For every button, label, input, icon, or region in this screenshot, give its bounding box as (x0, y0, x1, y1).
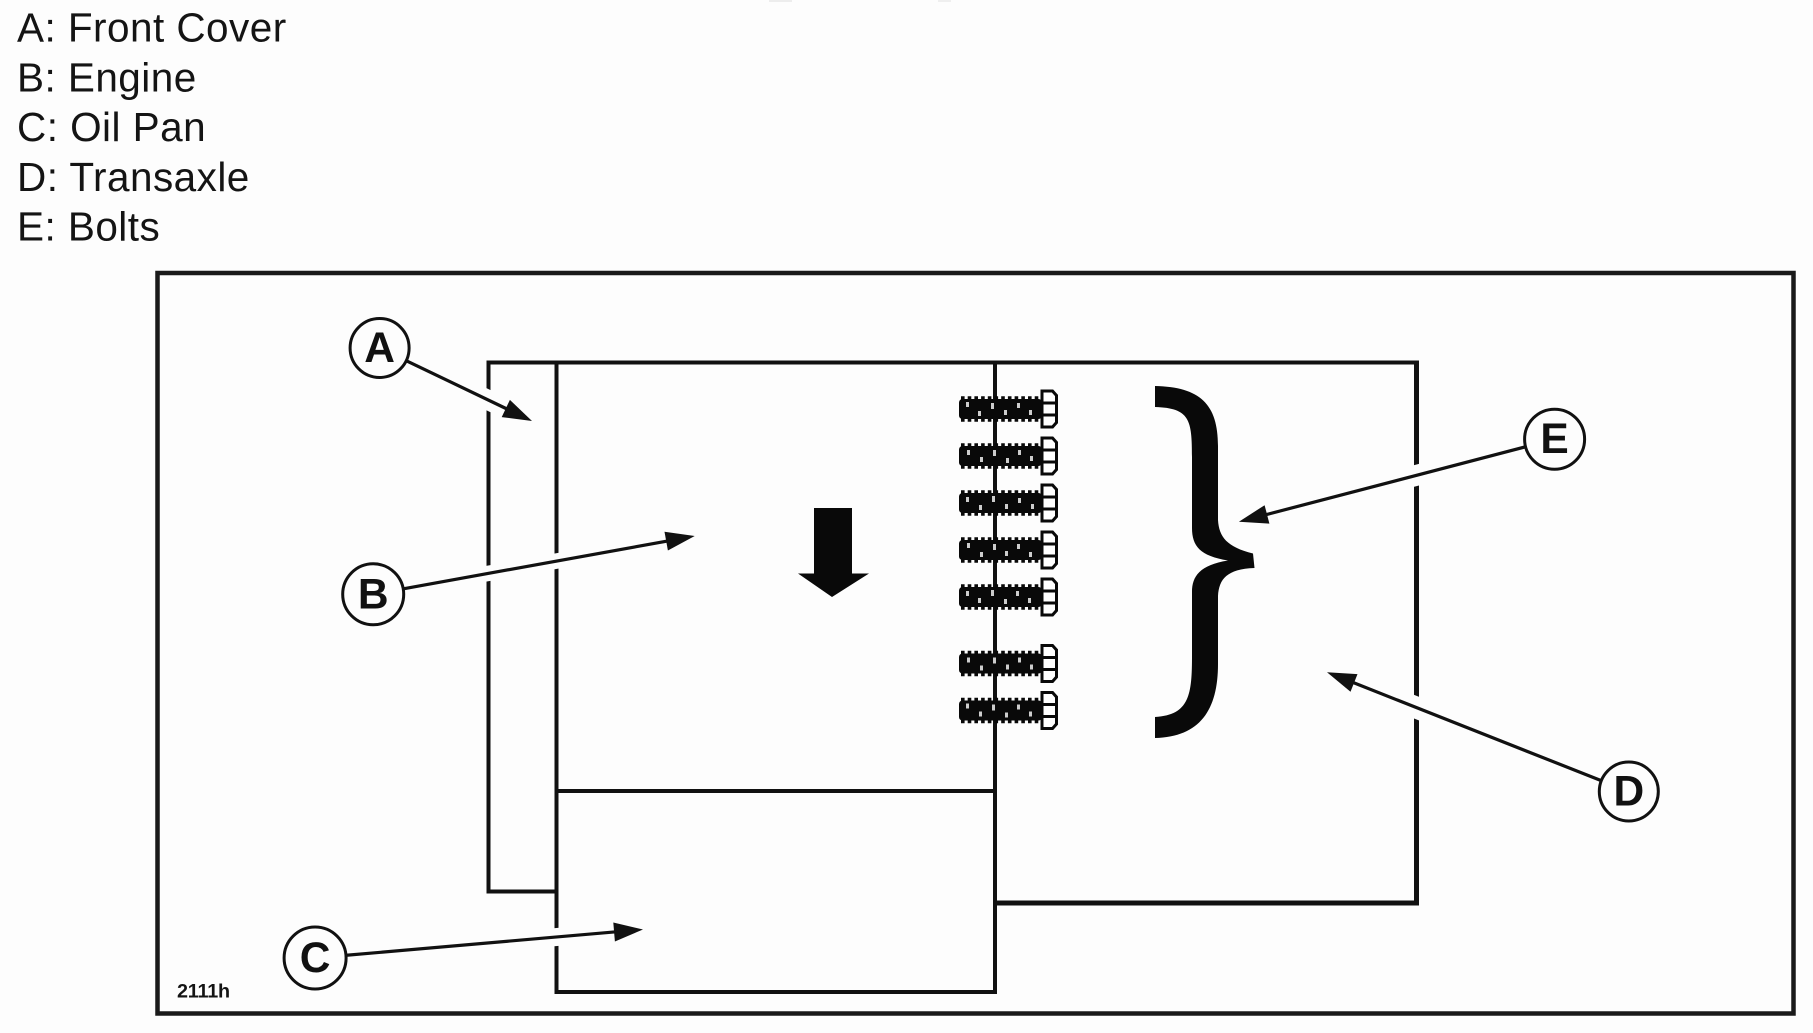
transaxle bottom edge (995, 901, 1419, 906)
curly brace E group (1155, 386, 1255, 738)
svg-text:A: Front Cover: A: Front Cover (17, 5, 287, 51)
top edge line of assembly (489, 361, 1417, 365)
leader line C (345, 932, 616, 956)
bolt 6 (959, 646, 1057, 682)
svg-text:D: Transaxle: D: Transaxle (17, 154, 250, 200)
svg-text:E: Bolts: E: Bolts (17, 204, 160, 250)
bolt 1 (959, 391, 1057, 427)
arrowhead A (502, 400, 532, 421)
leader line B (403, 541, 668, 589)
leader line E (1266, 447, 1526, 515)
bolt 2 (959, 438, 1057, 474)
leader halo D (1354, 683, 1601, 781)
callout circle D (1599, 762, 1658, 821)
arrowhead B (665, 532, 695, 551)
bolt 5 (959, 579, 1057, 615)
engine right / oil pan right edge (993, 363, 997, 993)
svg-text:A: A (364, 325, 395, 372)
callout circle E (1525, 409, 1585, 469)
svg-text:C: C (300, 935, 331, 982)
transaxle right edge (1414, 361, 1419, 904)
bolt 4 (959, 532, 1057, 568)
svg-text:2111h: 2111h (177, 981, 230, 1003)
oil pan bottom edge (555, 990, 998, 994)
bolt 3 (959, 485, 1057, 521)
svg-text:D: D (1613, 769, 1644, 816)
engine bottom / oil pan top edge (557, 789, 996, 793)
engine left / oil pan left edge (555, 363, 559, 993)
leader line D (1353, 682, 1601, 780)
front cover bottom edge (487, 890, 557, 894)
svg-text:C: Oil Pan: C: Oil Pan (17, 104, 206, 150)
callout circle C (284, 927, 346, 989)
bolt 7 (959, 693, 1057, 729)
leader halo B (403, 541, 667, 589)
arrowhead D (1327, 672, 1358, 691)
svg-text:E: E (1540, 416, 1568, 463)
callout circle B (343, 564, 404, 625)
leader halo E (1267, 447, 1526, 515)
svg-text:B: B (358, 571, 389, 618)
svg-text:B: Engine: B: Engine (17, 54, 197, 100)
faint cropped text remnants at top edge (769, 0, 792, 2)
arrowhead C (613, 923, 643, 942)
leader halo A (407, 361, 506, 409)
leader halo C (345, 932, 614, 955)
callout circle A (350, 319, 409, 378)
front cover A left edge (487, 361, 491, 892)
arrowhead E (1239, 505, 1270, 523)
outer border frame (158, 273, 1794, 1014)
black down arrow (engine to oil pan) (798, 508, 869, 597)
leader line A (407, 361, 507, 409)
